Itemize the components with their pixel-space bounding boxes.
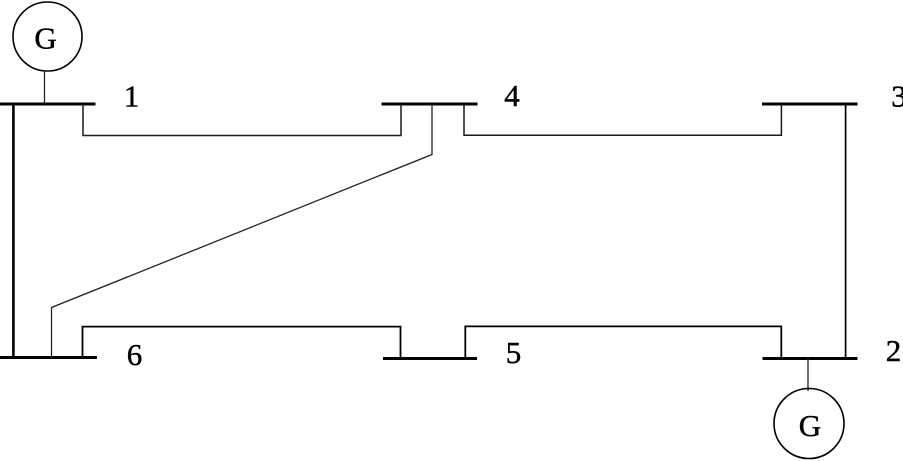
wire line 1-6 (left vertical) [12,104,15,358]
svg-text:G: G [799,408,821,443]
svg-text:2: 2 [886,333,902,368]
wire line 4-3 [464,104,781,135]
bus 1 [0,103,96,106]
wire generator G2 stem [807,359,809,392]
svg-text:3: 3 [891,78,903,113]
bus 5 [383,357,477,360]
svg-text:5: 5 [506,335,522,370]
wire line 1-4 [83,104,401,136]
svg-text:1: 1 [124,78,140,113]
bus 6 [0,356,97,359]
generator G2 circle [774,389,844,459]
bus 2 [763,357,858,360]
svg-text:4: 4 [504,78,520,113]
bus 4 [382,103,478,106]
wire line 3-2 (right vertical) [845,104,847,359]
wire line 4-6 (diagonal) [52,104,433,358]
wire line 5-2 [465,326,781,358]
svg-text:6: 6 [127,337,143,372]
generator G1 circle [13,2,82,71]
svg-text:G: G [34,20,56,55]
wire line 6-5 [83,327,401,359]
bus 3 [762,103,858,106]
wire generator G1 stem [44,71,46,104]
